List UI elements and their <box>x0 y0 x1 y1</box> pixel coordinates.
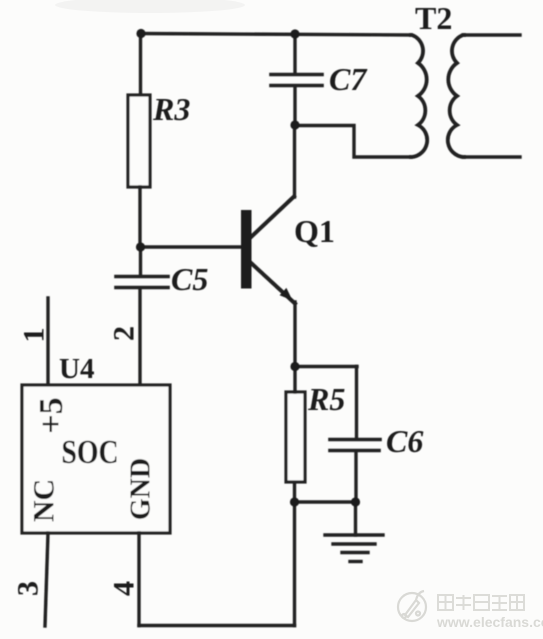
transistor Q1 emitter line <box>250 262 295 304</box>
wire: R5 bottom lead <box>293 482 296 502</box>
wire: collector vertical from C7 node <box>293 125 296 197</box>
wire: emitter node to C6 <box>295 365 357 368</box>
wire: R5 top lead <box>293 366 296 392</box>
wire: C6 top lead <box>355 367 358 439</box>
svg-text:GND: GND <box>126 458 157 520</box>
node at Q1 base <box>136 242 145 251</box>
capacitor C5 <box>116 275 168 279</box>
svg-text:3: 3 <box>12 581 45 596</box>
svg-text:+5: +5 <box>33 397 70 433</box>
wire: node row between R5 and C6 bottoms <box>294 500 356 503</box>
node at C6 bottom / ground <box>351 497 360 506</box>
wire: base wire to Q1 <box>140 245 242 248</box>
wire: pin 3 lead <box>45 533 48 626</box>
capacitor C7 <box>271 73 322 77</box>
wire: pin 1 lead <box>46 298 49 385</box>
node at C7 top <box>290 29 299 38</box>
scan smudge top edge <box>55 0 245 13</box>
watermark CJK text (glyph blocks) <box>438 595 524 610</box>
resistor R5 <box>286 392 305 482</box>
svg-text:C7: C7 <box>329 61 368 97</box>
transistor Q1 collector line <box>250 197 294 239</box>
svg-text:SOC: SOC <box>61 432 118 470</box>
wire: top rail from R3 top to transformer <box>141 34 411 36</box>
svg-text:T2: T2 <box>415 0 452 36</box>
svg-text:U4: U4 <box>59 353 94 385</box>
node at R5 bottom <box>290 497 299 506</box>
IC U4 box <box>22 385 170 533</box>
wire: right riser to R5 bottom node <box>293 502 296 626</box>
wire: C7 bottom stem <box>293 87 296 125</box>
resistor R3 <box>128 95 150 187</box>
wire: secondary bottom <box>463 155 520 158</box>
transistor Q1 base bar <box>241 210 252 289</box>
wire: R3 bottom lead <box>138 187 141 248</box>
wire: C5 top lead <box>139 247 142 275</box>
capacitor C6 <box>330 438 380 442</box>
node at C7 bottom <box>290 120 299 129</box>
wire: ground stem <box>354 502 357 535</box>
emitter arrowhead <box>280 288 293 301</box>
node at emitter/R5 top <box>290 362 299 371</box>
transformer T2 right winding <box>448 35 464 157</box>
wire: R3 top lead <box>139 34 142 97</box>
svg-text:R3: R3 <box>152 91 190 127</box>
svg-text:1: 1 <box>18 328 51 343</box>
wire: C7 top stem <box>293 34 296 74</box>
svg-text:2: 2 <box>108 326 141 341</box>
svg-text:NC: NC <box>28 479 61 522</box>
watermark logo circle <box>398 591 426 621</box>
wire: pin 4 lead <box>137 533 140 626</box>
svg-text:4: 4 <box>108 581 141 596</box>
transformer T2 left winding <box>411 35 427 157</box>
wire: C5 to pin2 <box>138 289 141 385</box>
wire: C7 node to left winding bottom (step) <box>295 126 411 158</box>
wire: secondary top <box>463 33 520 36</box>
svg-text:www.elecfans.com: www.elecfans.com <box>436 614 543 630</box>
wire: bottom return wire <box>139 624 295 627</box>
wire: emitter vertical down to node <box>293 302 296 367</box>
svg-text:C6: C6 <box>386 423 423 459</box>
node at R3 top <box>136 29 145 38</box>
svg-text:R5: R5 <box>307 381 345 417</box>
wire: C6 bottom lead <box>354 452 357 502</box>
svg-text:Q1: Q1 <box>294 213 335 249</box>
svg-text:C5: C5 <box>171 261 208 297</box>
ground symbol <box>325 533 383 536</box>
